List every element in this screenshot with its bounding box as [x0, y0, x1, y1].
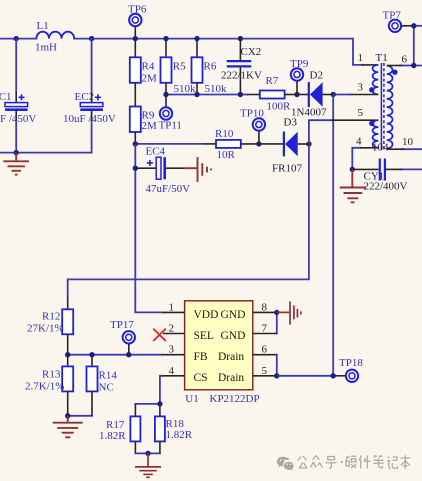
T1 pin 4 lead [360, 147, 378, 149]
svg-text:4: 4 [356, 136, 362, 148]
testpoint TP7 [383, 10, 414, 32]
svg-text:Drain: Drain [218, 372, 244, 384]
svg-text:5: 5 [358, 107, 364, 119]
svg-text:EC1: EC1 [0, 91, 12, 103]
resistor R13 [25, 355, 73, 416]
T1 polarity dot aux [369, 121, 374, 126]
svg-text:TP6: TP6 [128, 4, 147, 16]
wire pin4 to CY1 [352, 148, 360, 170]
wire VDD rail R9 to R10 row [135, 143, 204, 145]
wire CS net from pin4 down to R17/R18 [135, 376, 162, 404]
ground AC return [3, 153, 29, 175]
node FB junction TP17 [126, 352, 131, 357]
svg-text:10: 10 [402, 136, 414, 148]
U1 pin 2 SEL no-connect [163, 323, 185, 335]
svg-text:10uF /450V: 10uF /450V [63, 113, 116, 125]
svg-text:R4: R4 [142, 61, 155, 73]
svg-text:2: 2 [169, 323, 175, 335]
wire bottom AC return [0, 152, 92, 154]
U1 pin 7 [253, 323, 277, 335]
svg-text:6: 6 [402, 54, 408, 66]
node bus junction TP6/R4 [133, 36, 138, 41]
svg-text:10R: 10R [217, 149, 236, 161]
wire R17/R18 bottom tie [136, 452, 161, 454]
wire EC1 top branch [15, 39, 17, 92]
resistor R5 [161, 39, 197, 95]
T1 pin 10 lead [387, 148, 404, 150]
U1 pin 3 [162, 344, 185, 356]
svg-text:R12: R12 [42, 311, 60, 323]
wire snubber net y94.5 R5 to R7 [166, 94, 247, 96]
node bus junction CX2 [238, 36, 243, 41]
node junction D2/pin3/drain net [331, 92, 336, 97]
resistor R17 [99, 404, 140, 454]
svg-text:2M: 2M [142, 120, 158, 132]
ground R13/R14 [53, 416, 83, 438]
svg-text:TP18: TP18 [339, 357, 363, 369]
node junction R9/R10/EC4 rail [133, 141, 138, 146]
svg-text:R6: R6 [204, 61, 217, 73]
testpoint TP6 [128, 4, 147, 39]
T1 aux winding pins 5-4 [373, 120, 379, 148]
wire pin6 right stub [400, 65, 422, 67]
svg-text:GND: GND [221, 330, 246, 342]
svg-text:R7: R7 [266, 75, 279, 87]
node junction TP18 [331, 373, 336, 378]
T1 core dashed line [383, 63, 385, 150]
wire R13/R14 bottom tie [68, 415, 92, 417]
svg-text:R5: R5 [173, 61, 186, 73]
node junction R13 bottom ground [65, 413, 70, 418]
svg-text:NC: NC [99, 382, 114, 394]
svg-text:TP11: TP11 [159, 120, 182, 132]
svg-text:R14: R14 [99, 370, 118, 382]
svg-text:4: 4 [169, 365, 175, 377]
svg-text:27K/1%: 27K/1% [27, 323, 64, 335]
resistor R14 [87, 355, 118, 416]
inductor L1 [35, 20, 74, 54]
no-connect X on pin 2 [153, 329, 166, 341]
resistor R10 [204, 128, 259, 161]
ground pin8 rotated [277, 301, 301, 324]
wire drain row to TP18 [277, 375, 333, 377]
watermark wechat icon [277, 457, 294, 471]
wire CY1 right stub [400, 168, 422, 170]
node snubber junction CX2 [238, 92, 243, 97]
svg-text:TP9: TP9 [290, 58, 309, 70]
watermark text 公众号·硬件笔记本 [298, 455, 410, 469]
testpoint TP9 [290, 58, 309, 95]
U1 pin 6 [253, 344, 277, 356]
resistor R4 [130, 39, 157, 107]
transformer T1 [331, 52, 414, 154]
ground CY1 [340, 169, 366, 202]
svg-text:10uF /450V: 10uF /450V [0, 113, 36, 125]
svg-text:CX2: CX2 [241, 46, 262, 58]
resistor R18 [155, 404, 193, 454]
wire aux net up to transformer pin5 [309, 120, 331, 144]
svg-text:5: 5 [262, 365, 268, 377]
wire aux net down and across to R12 [68, 144, 309, 298]
svg-text:6: 6 [262, 344, 268, 356]
wire AC bus left segment [0, 38, 36, 40]
T1 pin 6 lead [387, 65, 402, 67]
svg-text:TP10: TP10 [240, 108, 264, 120]
svg-text:CS: CS [194, 372, 208, 384]
capacitor EC2 [63, 91, 116, 125]
wire EC2 bottom branch [91, 120, 93, 153]
T1 secondary winding pins 6-10 [387, 66, 393, 149]
node junction D3/aux net [306, 141, 311, 146]
node junction pin5 drain [274, 373, 279, 378]
capacitor EC1 [0, 91, 36, 125]
svg-text:3: 3 [169, 344, 175, 356]
svg-text:R10: R10 [215, 128, 234, 140]
U1 pin 5 [253, 365, 277, 377]
wire Drain pins 6-5 tie [276, 355, 278, 376]
svg-text:1.82R: 1.82R [99, 430, 126, 442]
svg-text:VDD: VDD [194, 309, 219, 321]
svg-text:R13: R13 [42, 369, 61, 381]
wire EC1 bottom branch [15, 120, 17, 153]
node bus junction R6 [194, 36, 199, 41]
node junction CS/R18 top [157, 401, 162, 406]
svg-text:D2: D2 [310, 70, 323, 82]
T1 pin 3 lead [350, 94, 378, 96]
T1 polarity dot primary [369, 87, 374, 92]
svg-text:2.7K/1%: 2.7K/1% [25, 381, 64, 393]
svg-text:KP2122DP: KP2122DP [210, 393, 260, 405]
svg-text:222/400V: 222/400V [364, 181, 408, 193]
svg-text:TP7: TP7 [383, 10, 402, 22]
node snubber junction R6 [194, 92, 199, 97]
capacitor EC4 [135, 146, 190, 196]
svg-text:FB: FB [194, 351, 208, 363]
capacitor CX2 [221, 39, 262, 95]
node junction R17/R18 ground [145, 451, 150, 456]
U1 pin 4 [162, 365, 185, 377]
testpoint TP17 [110, 319, 135, 355]
svg-text:1mH: 1mH [35, 42, 57, 54]
resistor R7 [247, 75, 297, 113]
node FB junction R14 [89, 352, 94, 357]
wire GND pins 8-7 tie [276, 312, 278, 333]
capacitor CY1 [352, 159, 407, 193]
node junction TP9/R7/D2 [294, 92, 299, 97]
svg-text:U1: U1 [185, 393, 198, 405]
svg-text:1.82R: 1.82R [166, 429, 193, 441]
svg-text:510k: 510k [174, 83, 197, 95]
wire TP7 to pin6 net [413, 26, 415, 66]
ground EC4 rotated [184, 157, 211, 182]
svg-text:7: 7 [262, 323, 268, 335]
svg-text:T1: T1 [376, 52, 388, 64]
diode D3 [259, 117, 309, 175]
svg-text:2M: 2M [142, 73, 158, 85]
svg-text:D3: D3 [284, 117, 298, 129]
svg-text:TP17: TP17 [110, 319, 134, 331]
U1 pin 1 [162, 302, 185, 314]
U1 pin 8 [253, 302, 277, 314]
ground R17/R18 [135, 453, 161, 477]
node junction EC4 on VDD rail [133, 166, 138, 171]
node snubber junction R5/TP11 [163, 92, 168, 97]
node FB junction R12/R13 [65, 352, 70, 357]
svg-text:FR107: FR107 [272, 163, 302, 175]
node bus junction EC2 [89, 36, 94, 41]
wire FB net row [68, 354, 162, 356]
svg-text:1: 1 [169, 302, 175, 314]
svg-text:Drain: Drain [218, 351, 244, 363]
diode D2 [291, 70, 333, 119]
testpoint TP10 [240, 108, 265, 144]
node junction CY1 ground [350, 167, 355, 172]
node bus junction EC1 [14, 36, 19, 41]
T1 pin 5 lead [331, 119, 378, 121]
svg-text:EC2: EC2 [75, 91, 95, 103]
svg-text:104: 104 [372, 142, 389, 154]
svg-text:EC4: EC4 [146, 146, 166, 158]
T1 polarity dot secondary [392, 70, 397, 75]
svg-text:3: 3 [358, 82, 364, 94]
T1 primary winding pins 1-3 [373, 65, 379, 95]
svg-text:GND: GND [221, 309, 246, 321]
wire pin10 right stub [402, 148, 422, 150]
wire VDD vertical rail to IC pin1 [135, 144, 162, 313]
node junction TP7 [411, 23, 416, 28]
svg-text:1: 1 [358, 52, 364, 64]
testpoint TP11 [159, 95, 182, 132]
wire AC bus right segment to transformer pin1 [74, 39, 362, 65]
node AC return junction at EC1 [14, 150, 19, 155]
svg-text:L1: L1 [37, 20, 49, 32]
svg-text:510k: 510k [205, 83, 228, 95]
svg-text:SEL: SEL [194, 330, 214, 342]
wire D2 anode to transformer pin3 [333, 94, 350, 96]
testpoint TP18 [333, 357, 363, 382]
wire TP7 net right stub [414, 25, 422, 27]
node bus junction R5 [163, 36, 168, 41]
wire EC2 top branch [91, 39, 93, 92]
T1 pin 1 lead [362, 64, 378, 66]
node junction pin8 ground [274, 310, 279, 315]
T1 core solid line [380, 63, 382, 150]
svg-text:47uF/50V: 47uF/50V [146, 183, 191, 195]
op-amp U1 KP2122DP IC body [185, 301, 260, 405]
resistor R6 [192, 39, 228, 95]
svg-text:222/1KV: 222/1KV [221, 69, 262, 81]
resistor R12 [27, 298, 73, 355]
node junction pin6 [411, 63, 416, 68]
resistor R9 [130, 107, 157, 144]
wire drain net long vertical [332, 95, 334, 376]
svg-text:100R: 100R [267, 101, 292, 113]
node junction TP10/R10/D3 [256, 141, 261, 146]
svg-text:8: 8 [262, 302, 268, 314]
